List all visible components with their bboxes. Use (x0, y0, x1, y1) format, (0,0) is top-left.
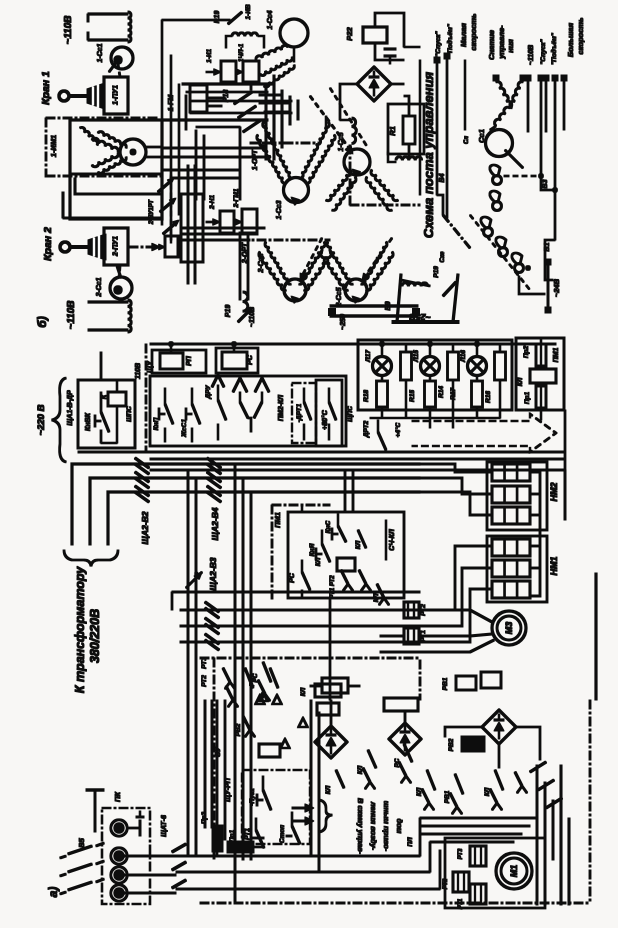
svg-text:М1: М1 (509, 865, 519, 878)
ShchU-RP box (242, 770, 310, 844)
svg-text:Кран 1: Кран 1 (40, 71, 52, 105)
svg-text:ПЛ: ПЛ (407, 837, 414, 847)
heater feed wires (420, 464, 492, 472)
choke coils texture (352, 118, 356, 144)
110V bus through panel (150, 343, 556, 345)
svg-text:R16: R16 (485, 391, 492, 403)
svg-text:РТ2: РТ2 (201, 675, 208, 687)
svg-text:КЛ: КЛ (325, 785, 332, 794)
svg-text:Кран 2: Кран 2 (42, 227, 54, 261)
svg-text:-Пуск: -Пуск (249, 788, 256, 806)
svg-text:КЛ: КЛ (416, 787, 423, 796)
svg-text:РВ1: РВ1 (442, 677, 449, 690)
svg-text:~110В: ~110В (66, 300, 77, 329)
PM1 box with fuses (516, 338, 564, 410)
top resistors (401, 352, 412, 380)
svg-text:2-ВУ1РТ: 2-ВУ1РТ (149, 199, 155, 225)
svg-text:ния: ния (506, 39, 515, 53)
coil and bridge 2 (384, 698, 418, 711)
M1 circuit wires (420, 817, 537, 819)
svg-text:~110В: ~110В (249, 307, 256, 327)
svg-text:скорость: скорость (469, 13, 478, 51)
motor M3 (492, 611, 526, 645)
dashed arrow banner (412, 414, 556, 452)
contact DRT1 (292, 383, 316, 443)
svg-text:2-Сс5: 2-Сс5 (336, 287, 343, 307)
svg-text:Р19: Р19 (433, 266, 440, 278)
svg-text:РВ2: РВ2 (235, 723, 242, 736)
svg-text:"Спуск": "Спуск" (435, 30, 442, 56)
svg-text:б): б) (35, 316, 49, 327)
svg-text:ПМ2-КЛ: ПМ2-КЛ (278, 395, 285, 421)
contacts PM2-KL (233, 378, 247, 392)
svg-text:В4: В4 (439, 173, 446, 182)
svg-text:РТ1 РТ2: РТ1 РТ2 (330, 575, 336, 599)
relay K coil (108, 392, 126, 406)
svg-text:СЧ-КЛ: СЧ-КЛ (389, 529, 396, 551)
svg-text:ШПС: ШПС (126, 406, 133, 422)
svg-text:РС: РС (247, 354, 254, 365)
svg-text:R14: R14 (438, 386, 445, 398)
svg-text:скорость: скорость (576, 17, 585, 55)
svg-text:R15: R15 (409, 390, 416, 402)
second bus set (172, 591, 420, 593)
svg-text:Л15: Л15 (413, 350, 420, 363)
svg-text:"Подъём": "Подъём" (550, 32, 558, 65)
brace 220V (52, 378, 66, 462)
svg-text:КнЯ: КнЯ (309, 543, 316, 556)
svg-text:РВ2: РВ2 (448, 738, 455, 751)
controller 1-PU1 (104, 77, 128, 114)
svg-text:"Подъём": "Подъём" (446, 23, 454, 56)
svg-text:КЛ: КЛ (300, 687, 307, 696)
capacitor (384, 48, 396, 50)
unit 2-IM1 box (46, 175, 162, 177)
svg-text:дом: дом (395, 819, 404, 834)
svg-text:Р19: Р19 (225, 305, 232, 318)
bridge B3 (482, 710, 516, 744)
svg-text:Пр1: Пр1 (524, 391, 531, 404)
wire mesh center (182, 83, 272, 85)
misc mid connections (242, 642, 244, 660)
svg-text:R18: R18 (363, 390, 370, 402)
svg-text:~24В: ~24В (552, 278, 561, 297)
RT contacts top (223, 668, 230, 682)
svg-text:шным приво-: шным приво- (382, 801, 391, 852)
switch V3 (493, 176, 502, 185)
svg-text:КЛ: КЛ (355, 540, 362, 549)
svg-text:РВ1: РВ1 (444, 790, 451, 803)
svg-text:Схема поста управления: Схема поста управления (421, 72, 436, 239)
svg-text:Сл: Сл (464, 136, 470, 144)
svg-text:1-ОРТ: 1-ОРТ (252, 149, 259, 170)
svg-text:а): а) (46, 887, 60, 898)
svg-text:В3: В3 (542, 179, 549, 188)
svg-text:КнС: КнС (325, 520, 332, 533)
svg-text:ЩА2-В3: ЩА2-В3 (208, 557, 218, 590)
svg-text:+80°С: +80°С (321, 409, 329, 430)
controller 2-PU1 (104, 228, 128, 265)
svg-text:1-ГМ: 1-ГМ (168, 95, 175, 112)
winding crane1 supply (88, 13, 128, 15)
svg-text:+4°С: +4°С (394, 422, 402, 437)
svg-text:1-Сс3: 1-Сс3 (276, 200, 283, 219)
svg-text:1-ПУ1: 1-ПУ1 (113, 85, 120, 105)
svg-text:Схе: Схе (440, 251, 446, 263)
svg-text:ПК: ПК (113, 791, 122, 802)
rectifier bridge B1 (357, 67, 391, 101)
svg-text:1-Сс1: 1-Сс1 (97, 43, 104, 62)
svg-text:110В: 110В (135, 363, 142, 379)
svg-text:"Спуск": "Спуск" (540, 38, 547, 64)
svg-text:~110В: ~110В (63, 15, 74, 44)
svg-text:НМ2: НМ2 (549, 482, 559, 501)
svg-text:В схему управ-: В схему управ- (356, 798, 365, 855)
thermal RT1 (404, 628, 419, 644)
selsyn 1-Cc3 with stator (263, 122, 293, 178)
svg-text:2-ПУ1: 2-ПУ1 (113, 236, 120, 257)
svg-text:Малая: Малая (459, 22, 468, 46)
svg-text:ПМ1: ПМ1 (273, 512, 282, 528)
svg-text:РТ3: РТ3 (201, 657, 208, 669)
svg-text:ЩПС: ЩПС (347, 406, 354, 422)
wires left mesh (161, 20, 163, 225)
svg-text:2-Н1: 2-Н1 (209, 195, 216, 210)
transformer leads (72, 464, 420, 545)
svg-text:ЖсС1: ЖсС1 (181, 419, 188, 438)
svg-text:1ЧЛ-1: 1ЧЛ-1 (238, 43, 245, 62)
svg-text:Л17: Л17 (365, 350, 372, 363)
misc wires b) right (419, 60, 421, 195)
svg-text:Большая: Большая (566, 22, 575, 57)
svg-text:Пр2: Пр2 (523, 345, 530, 358)
coil 1-IV (232, 33, 258, 36)
SU frame (213, 658, 215, 860)
svg-text:М3: М3 (504, 622, 514, 635)
Y winding (496, 82, 512, 108)
svg-text:ЩУ-РП: ЩУ-РП (225, 777, 232, 802)
+80C box (316, 380, 342, 446)
svg-text:2-Сс1: 2-Сс1 (96, 277, 103, 297)
selsyn 2-Cc1 (110, 277, 132, 299)
svg-text:РТ2: РТ2 (443, 878, 449, 889)
svg-text:управле-: управле- (497, 25, 506, 60)
svg-text:~220 В: ~220 В (36, 404, 47, 435)
svg-text:КнВК: КнВК (85, 412, 92, 431)
contact RT1 NC (255, 818, 257, 830)
svg-text:РТ3: РТ3 (458, 848, 464, 859)
svg-text:В5: В5 (77, 837, 86, 847)
svg-text:КЛ: КЛ (517, 377, 524, 386)
svg-text:Снятие: Снятие (487, 30, 496, 60)
right borders (595, 573, 597, 700)
svg-text:ЩА2-В4: ЩА2-В4 (210, 507, 220, 540)
dashed sync links (310, 96, 352, 152)
vertical feeders (187, 470, 189, 855)
breaker ShchA2-V4 (207, 458, 221, 468)
svg-text:2-ГМ1: 2-ГМ1 (233, 188, 240, 208)
svg-text:380/220В: 380/220В (88, 609, 102, 663)
breaker ShchA2-V2 (135, 458, 149, 468)
thermal RT2 (404, 602, 419, 618)
breaker right (530, 762, 546, 772)
breaker ShchA2-V3 (205, 602, 219, 612)
PM1 contact group frame (271, 505, 273, 600)
svg-text:РТ1: РТ1 (244, 828, 251, 840)
svg-text:РС: РС (289, 572, 296, 583)
svg-text:Р19: Р19 (214, 11, 221, 24)
relay RS (216, 348, 258, 373)
arrows to air drive (305, 804, 314, 812)
brace transformer (64, 550, 118, 566)
svg-text:Л16: Л16 (460, 350, 467, 363)
heater bank NM2 (487, 462, 547, 530)
svg-text:ПМ1: ПМ1 (553, 348, 560, 363)
svg-text:КЛ: КЛ (484, 787, 491, 796)
bottom buses (176, 855, 420, 857)
bridge B2 (315, 726, 347, 758)
svg-text:1-И1: 1-И1 (206, 49, 213, 63)
svg-text:ДРТ2: ДРТ2 (363, 420, 370, 438)
motor M1 (496, 853, 532, 889)
heater bank NM1 (487, 536, 547, 602)
right feeder verticals (560, 765, 562, 905)
unit 1-IM1 dash-dot frame (46, 117, 160, 119)
svg-text:1-ИВ: 1-ИВ (245, 4, 252, 19)
svg-text:К: К (101, 394, 108, 399)
svg-text:R1: R1 (388, 126, 397, 136)
svg-text:К трансформатору: К трансформатору (73, 566, 87, 693)
b) bottom bus (330, 305, 418, 307)
svg-text:ления возду-: ления возду- (369, 801, 378, 851)
svg-text:2-ОРТ: 2-ОРТ (242, 242, 249, 264)
lamps panel box (358, 340, 512, 410)
svg-text:ЩАТ-6: ЩАТ-6 (161, 815, 168, 837)
crane 2 joystick (60, 242, 70, 252)
svg-text:РП: РП (186, 355, 193, 366)
switch chain lower (484, 228, 493, 237)
svg-text:-ДРТ1: -ДРТ1 (296, 403, 303, 422)
svg-text:ЩА1-В-ДР: ЩА1-В-ДР (67, 390, 74, 426)
svg-text:НМ1: НМ1 (549, 556, 559, 575)
svg-text:~110В: ~110В (528, 45, 535, 65)
svg-text:1-Сс4: 1-Сс4 (267, 10, 274, 29)
selsyn 1-Cc1 (111, 47, 133, 69)
svg-text:Пр1: Пр1 (229, 829, 236, 842)
middle band buses (150, 451, 565, 453)
svg-text:1-ИМ1: 1-ИМ1 (49, 135, 58, 157)
svg-text:ДРУ: ДРУ (205, 385, 212, 400)
SU feeder verticals (310, 700, 312, 856)
long wires right (527, 82, 529, 132)
svg-text:ЩУ: ЩУ (147, 360, 154, 373)
terminal squares right (493, 75, 499, 81)
box KnVK (78, 380, 135, 448)
svg-text:КЛ: КЛ (373, 593, 380, 602)
relay RP (152, 350, 206, 373)
svg-text:КЛ: КЛ (315, 557, 322, 566)
contacts row box (150, 376, 346, 446)
1-IM1 machine box (70, 120, 162, 219)
svg-text:Р22: Р22 (345, 27, 354, 41)
svg-text:ЩА2-В2: ЩА2-В2 (140, 511, 150, 544)
svg-text:Стоп: Стоп (279, 825, 286, 843)
svg-text:~250: ~250 (340, 314, 347, 330)
